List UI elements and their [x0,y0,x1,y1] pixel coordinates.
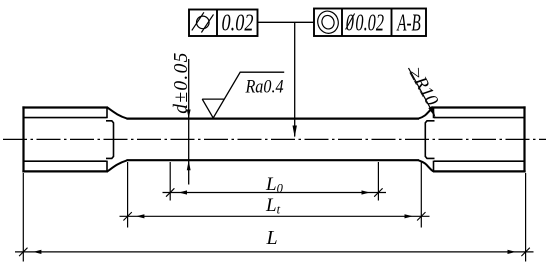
Lt arrow left [136,214,144,218]
cylindricity symbol [192,12,214,32]
left head outline [22,106,108,172]
R10 leader arrowhead [428,106,435,118]
thread root lines right [434,118,525,162]
L0 arrow right [362,190,370,194]
L0 tick right [374,188,382,196]
L tick right [521,248,529,256]
gauge section lines [127,119,420,161]
shoulder taper right [419,108,434,172]
leader arrowhead [293,126,297,138]
concentricity symbol [315,8,341,36]
Lt extension line left [127,162,129,228]
feature control frame U2 (concentricity 0.02 A-B) [314,9,426,37]
L extension line right [525,173,527,262]
Lt dimension line [120,215,430,217]
L0 dimension line [163,192,387,194]
shoulder taper left [107,108,127,172]
R10 leader [409,68,435,115]
d arrow bottom [187,160,191,170]
Lt tick right [417,212,425,220]
svg-text:d±0.05: d±0.05 [171,51,192,113]
centerline (specimen axis) [3,138,546,140]
Lt tick left [123,212,131,220]
undercut groove left [106,121,114,159]
L extension line left [22,173,24,262]
svg-text:0: 0 [346,11,354,37]
thread end verticals right [433,108,435,172]
L0 extension line right [377,162,379,201]
L0 arrow left [179,190,187,194]
leader to gauge surface [294,22,296,136]
L arrow left [33,250,41,254]
L tick left [19,248,27,256]
Lt arrow right [405,214,413,218]
undercut groove right [425,121,434,159]
thread end verticals left [106,108,108,172]
Lt extension line right [420,162,422,228]
L0 extension line left [169,162,171,201]
L dimension line [15,251,534,253]
surface finish symbol [202,72,284,118]
svg-text:L: L [266,227,278,249]
d dimension line [188,59,190,185]
thread root lines left [24,118,107,162]
connector between frames [258,21,315,23]
svg-text:Ra0.4: Ra0.4 [245,75,284,97]
svg-text:0.02: 0.02 [222,9,254,36]
feature control frame U1 (cylindricity 0.02) [189,10,258,37]
d arrow top [187,110,191,119]
right head outline [433,106,526,172]
L0 tick left [166,188,174,196]
L arrow right [508,250,516,254]
svg-text:A-B: A-B [396,10,421,36]
svg-text:0.02: 0.02 [355,11,384,37]
